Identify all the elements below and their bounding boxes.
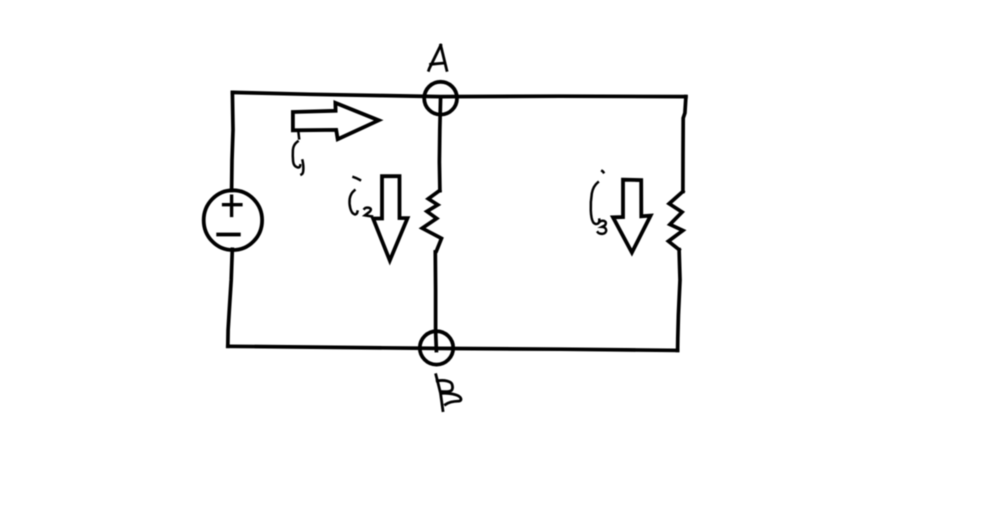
wire top (node to node across top) [233,92,686,96]
current arrow i3 (block arrow pointing down, right branch) [613,180,651,253]
node B (circle junction) [420,331,453,364]
label i2 [350,177,373,216]
resistor R1 (middle branch) [422,191,441,251]
label i1 [293,133,304,175]
current arrow i1 (block arrow pointing right) [293,103,379,139]
node label B [436,375,461,411]
node label A [429,45,447,70]
wire middle lower (middle resistor down through node B center) [435,252,436,351]
wire left upper (top-left corner down to source +) [232,92,233,190]
wire bottom (bottom-left corner to bottom-right corner) [228,346,678,350]
current arrow i2 (block arrow pointing down, middle branch) [373,176,407,260]
resistor R2 (right branch) [668,192,683,250]
wire left lower (source - down to bottom-left corner) [228,249,233,346]
wire right (top-right corner down to resistor, and resistor to bottom-right corner) [683,97,686,192]
label i3 [591,171,606,234]
node A (circle junction) [424,82,457,115]
voltage source V1 [204,190,262,250]
wire middle upper (node A down to middle resistor) [439,97,440,191]
